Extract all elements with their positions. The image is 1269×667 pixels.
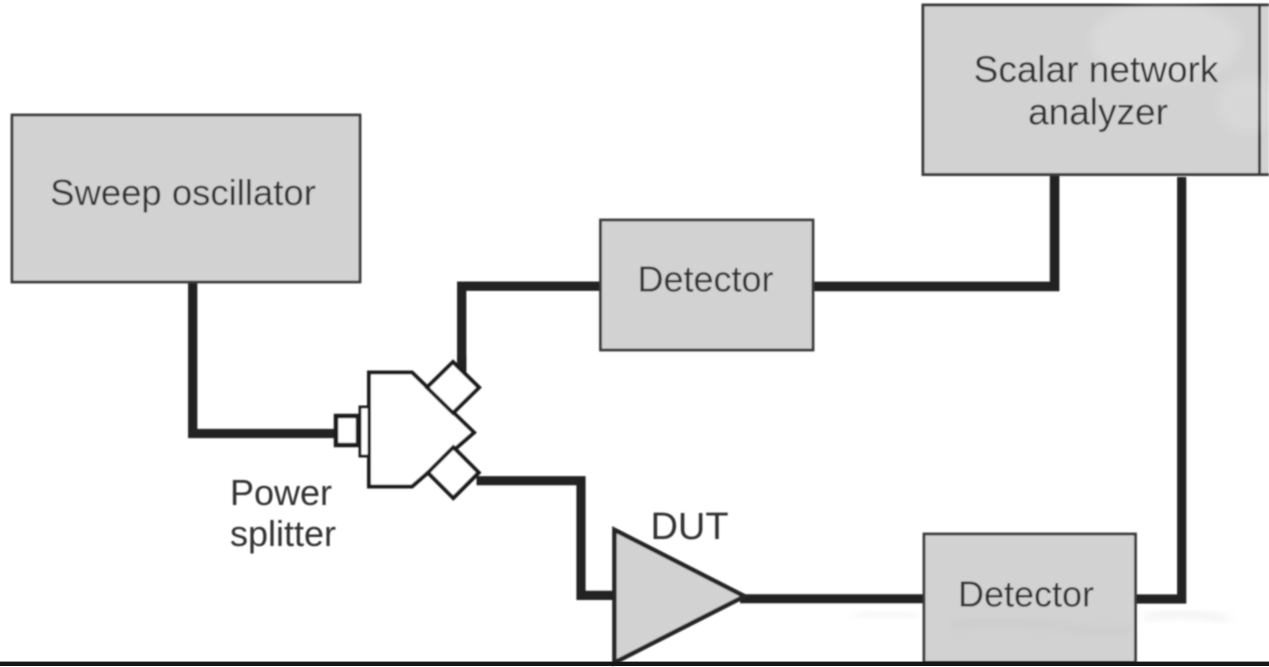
- svg-text:Detector: Detector: [958, 574, 1094, 615]
- DUT amplifier triangle: [614, 530, 744, 663]
- wire DUT output to bottom detector: [740, 594, 924, 603]
- bottom border line: [0, 662, 1269, 666]
- block Detector (middle): [601, 220, 814, 350]
- right border of scalar network analyzer box: [1258, 5, 1261, 175]
- wire from sweep oscillator to power splitter: [193, 283, 345, 434]
- wire from scalar network analyzer down to bottom detector: [1136, 177, 1182, 599]
- block Sweep oscillator: [12, 115, 360, 282]
- power splitter upper port diamond: [427, 362, 479, 413]
- block Scalar network analyzer: [922, 4, 1269, 177]
- svg-text:Sweep oscillator: Sweep oscillator: [50, 172, 316, 213]
- svg-text:Scalar network: Scalar network: [974, 49, 1219, 90]
- watermark smudges near bottom detector: [950, 622, 1130, 632]
- svg-text:Power: Power: [230, 472, 332, 513]
- wire stub over upper diamond: [457, 356, 466, 377]
- wire from detector to scalar network analyzer: [814, 176, 1055, 286]
- svg-text:DUT: DUT: [650, 506, 728, 548]
- upper diamond edge redrawn over stub: [453, 362, 479, 388]
- block Detector (bottom): [924, 534, 1136, 663]
- watermark light blob: [1090, 2, 1240, 82]
- power splitter body: [369, 373, 474, 487]
- lower diamond lower-right edge redrawn over wire end: [453, 473, 478, 498]
- svg-text:splitter: splitter: [230, 513, 336, 554]
- power splitter input plug: [336, 416, 358, 445]
- wire from power splitter lower port to DUT: [477, 481, 617, 596]
- svg-text:Detector: Detector: [637, 259, 773, 300]
- wire from power splitter upper port to detector (left segment): [462, 286, 600, 382]
- svg-text:analyzer: analyzer: [1028, 92, 1168, 133]
- power splitter input bar: [360, 407, 369, 456]
- power splitter lower port diamond: [428, 447, 479, 498]
